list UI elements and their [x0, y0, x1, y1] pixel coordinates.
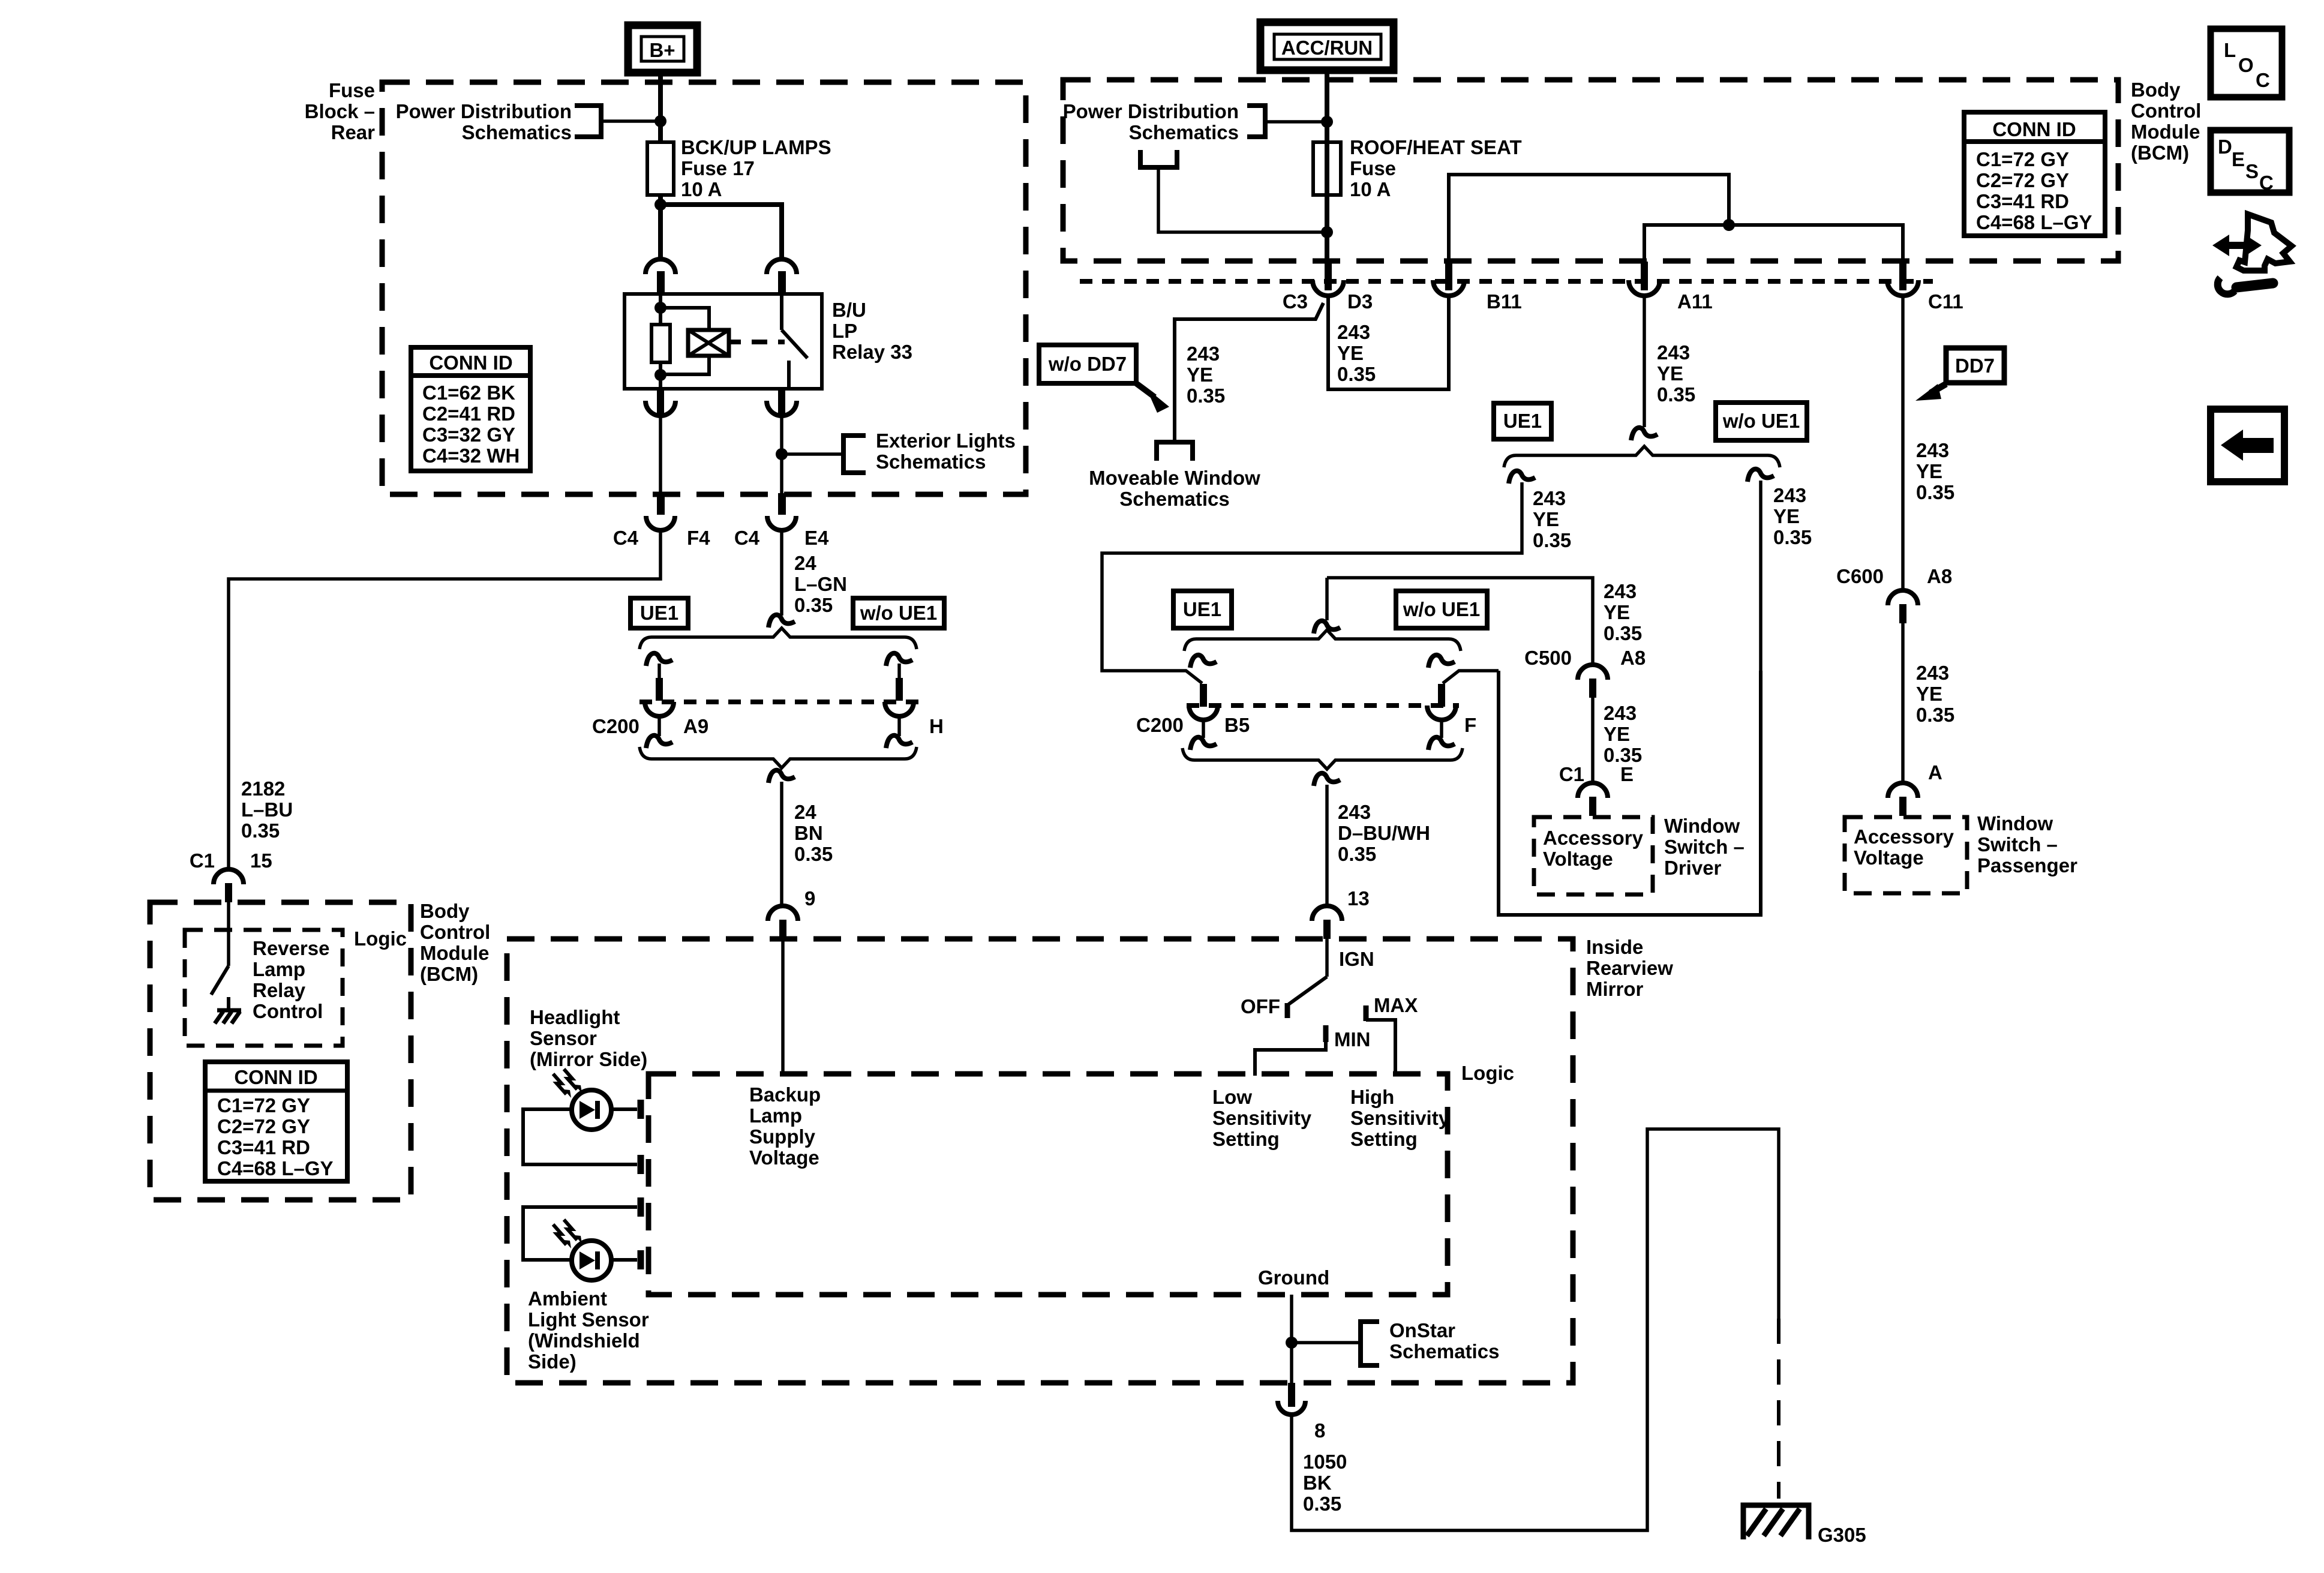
label C4 F4	[613, 527, 710, 549]
svg-text:1050: 1050	[1303, 1451, 1347, 1473]
svg-text:Supply: Supply	[749, 1125, 816, 1148]
svg-text:MIN: MIN	[1334, 1028, 1371, 1050]
relay actuator dashed link	[752, 340, 785, 344]
svg-text:Block –: Block –	[305, 100, 375, 122]
svg-text:Body: Body	[420, 900, 470, 922]
connector C600 A8	[1888, 590, 1918, 623]
svg-text:YE: YE	[1187, 364, 1213, 386]
label OnStar Schematics	[1389, 1319, 1499, 1362]
wire B+ down	[658, 73, 663, 144]
svg-text:Ground: Ground	[1258, 1266, 1329, 1289]
connector row dotted BCM bottom	[1080, 279, 1933, 284]
svg-text:(Mirror Side): (Mirror Side)	[530, 1048, 647, 1070]
wire resume hook IGN	[1314, 621, 1340, 634]
svg-text:Side): Side)	[528, 1350, 577, 1373]
arrow DD7	[1915, 384, 1946, 401]
svg-text:Schematics: Schematics	[1119, 488, 1229, 510]
svg-text:OnStar: OnStar	[1389, 1319, 1455, 1341]
icon DESC box	[2211, 130, 2289, 194]
svg-text:H: H	[929, 715, 944, 737]
label C600 A8	[1836, 565, 1952, 587]
svg-text:243: 243	[1187, 343, 1220, 365]
wire resume hook circuit 24 BN	[768, 770, 795, 783]
svg-text:MAX: MAX	[1374, 994, 1418, 1016]
headlight sensor loop	[523, 1109, 637, 1164]
svg-text:C1=62 BK: C1=62 BK	[422, 382, 515, 404]
wire UE1 branch to C200 B5	[1102, 482, 1522, 683]
relay top connector left	[645, 259, 675, 294]
svg-text:0.35: 0.35	[241, 819, 280, 842]
svg-text:L–BU: L–BU	[241, 798, 293, 821]
inside rearview mirror dashed box	[507, 939, 1573, 1383]
connector D3	[1313, 262, 1344, 296]
svg-text:Exterior Lights: Exterior Lights	[876, 430, 1016, 452]
svg-text:A: A	[1928, 761, 1942, 784]
svg-text:C2=72 GY: C2=72 GY	[217, 1115, 310, 1137]
svg-text:C11: C11	[1928, 290, 1963, 313]
svg-text:Passenger: Passenger	[1977, 854, 2077, 876]
svg-text:Logic: Logic	[1461, 1062, 1514, 1084]
svg-text:Reverse: Reverse	[253, 937, 329, 959]
svg-text:w/o DD7: w/o DD7	[1048, 353, 1127, 375]
bracket power distribution (ACC)	[1247, 106, 1265, 137]
svg-text:L–GN: L–GN	[794, 573, 847, 595]
label Window Switch Passenger	[1977, 812, 2077, 876]
svg-text:0.35: 0.35	[1604, 622, 1642, 644]
svg-text:0.35: 0.35	[1187, 385, 1225, 407]
svg-text:L: L	[2224, 39, 2236, 61]
label ROOF/HEAT SEAT Fuse 10A	[1350, 136, 1522, 200]
label Window Switch Driver	[1664, 815, 1744, 879]
wire resume hook A11	[1631, 428, 1658, 440]
relay suppression loop wire	[660, 308, 709, 374]
svg-text:0.35: 0.35	[1338, 843, 1376, 865]
svg-text:(BCM): (BCM)	[420, 963, 478, 985]
svg-text:D: D	[2218, 136, 2232, 158]
relay coil	[651, 325, 670, 362]
wire resume hook F	[1428, 655, 1455, 668]
svg-text:(Windshield: (Windshield	[528, 1329, 640, 1352]
svg-text:10 A: 10 A	[681, 178, 722, 200]
wire MAX to logic	[1366, 1020, 1395, 1076]
fork power distribution	[1140, 150, 1177, 167]
svg-text:0.35: 0.35	[794, 843, 833, 865]
connector B11	[1433, 262, 1464, 296]
junction dot exterior lights tap	[776, 448, 788, 460]
svg-text:0.35: 0.35	[1337, 363, 1376, 385]
wire resume hook circuit 243 D-BU/WH	[1314, 773, 1340, 786]
wire below H	[897, 716, 901, 736]
brace merge IGN options	[1182, 748, 1463, 769]
svg-text:UE1: UE1	[1503, 410, 1542, 432]
option box UE1 (A11)	[1494, 403, 1551, 439]
svg-text:Logic: Logic	[354, 927, 407, 950]
svg-text:CONN ID: CONN ID	[1992, 118, 2076, 140]
svg-text:Accessory: Accessory	[1854, 825, 1954, 848]
label B/U LP Relay 33	[832, 299, 912, 363]
svg-text:Switch –: Switch –	[1664, 836, 1744, 858]
svg-text:243: 243	[1338, 801, 1371, 823]
label 1050 BK 0.35	[1303, 1451, 1347, 1515]
bracket onstar	[1361, 1322, 1379, 1365]
junction dot coil top	[654, 302, 666, 314]
wire branch to relay switch side	[660, 205, 782, 260]
connector pin 9	[768, 906, 798, 939]
svg-text:A9: A9	[683, 715, 708, 737]
svg-text:CONN ID: CONN ID	[429, 352, 512, 374]
svg-text:(BCM): (BCM)	[2131, 142, 2189, 164]
switch reverse lamp relay control	[211, 966, 229, 995]
photodiode headlight sensor	[572, 1090, 611, 1130]
wire inside fuse	[1325, 144, 1329, 193]
wire drop to C200 A9	[657, 664, 661, 680]
brace split IGN options	[1184, 630, 1461, 651]
power symbol ACC/RUN	[1260, 22, 1394, 70]
connector C4 E4	[767, 493, 796, 530]
icon arrow and wrench	[2212, 214, 2292, 294]
wire below B5	[1202, 719, 1205, 738]
wire ground circuit 1050	[1292, 1129, 1779, 1530]
svg-text:C1: C1	[190, 849, 215, 872]
icon arrow-left box	[2211, 409, 2284, 482]
svg-text:IGN: IGN	[1339, 948, 1374, 970]
svg-text:C200: C200	[592, 715, 639, 737]
svg-text:O: O	[2238, 54, 2254, 76]
ambient sensor loop	[523, 1207, 637, 1260]
wire relay left to fuse block edge	[659, 416, 662, 497]
svg-text:Relay: Relay	[253, 979, 306, 1001]
relay bottom connector right	[767, 389, 797, 416]
wire resume hook w/o UE1 branch	[1747, 469, 1774, 482]
bracket exterior lights	[843, 436, 866, 473]
svg-text:Light Sensor: Light Sensor	[528, 1308, 649, 1331]
wire bracket to ACC wire	[1265, 120, 1327, 124]
terminal MIN	[1323, 1025, 1329, 1042]
label Exterior Lights Schematics	[876, 430, 1016, 473]
relay K33 box	[624, 294, 822, 389]
label C1 15	[190, 849, 272, 872]
wire fuse to relay	[658, 193, 663, 260]
wire to onstar bracket	[1292, 1341, 1361, 1344]
label 243 YE 0.35 (C3)	[1187, 343, 1225, 407]
wire IGN drop to brace	[1325, 578, 1329, 620]
wire drop circuit 24 BN	[780, 782, 783, 905]
wire dashed to G305	[1777, 1319, 1780, 1499]
brace split A11 options	[1504, 446, 1780, 467]
svg-text:Headlight: Headlight	[530, 1006, 620, 1028]
svg-text:C200: C200	[1136, 714, 1184, 736]
svg-text:D3: D3	[1347, 290, 1373, 313]
option box DD7	[1946, 348, 2004, 383]
fuse ROOF/HEAT SEAT	[1313, 142, 1341, 195]
bracket power distribution (B+)	[575, 106, 601, 137]
svg-text:Fuse 17: Fuse 17	[681, 157, 755, 179]
svg-text:Backup: Backup	[749, 1083, 821, 1106]
svg-text:YE: YE	[1337, 342, 1364, 364]
mirror logic dashed box	[648, 1074, 1448, 1295]
svg-text:24: 24	[794, 552, 816, 574]
svg-text:Body: Body	[2131, 79, 2181, 101]
wire C11 drop	[1901, 296, 1905, 589]
option box w/o DD7	[1039, 345, 1136, 383]
relay diode box with X	[688, 330, 729, 356]
svg-text:OFF: OFF	[1241, 995, 1280, 1017]
terminal OFF	[1285, 1003, 1290, 1018]
wire F4 circuit 2182	[229, 530, 660, 869]
svg-text:243: 243	[1533, 487, 1566, 509]
svg-text:S: S	[2245, 160, 2259, 182]
label C500 A8	[1524, 647, 1646, 669]
svg-text:w/o UE1: w/o UE1	[860, 602, 937, 624]
svg-text:BCK/UP LAMPS: BCK/UP LAMPS	[681, 136, 831, 158]
connector row dotted C200	[639, 700, 919, 704]
wire drop to C200 H	[897, 664, 901, 680]
label 243 YE 0.35 (C500)	[1604, 580, 1642, 644]
svg-text:C3=32 GY: C3=32 GY	[422, 424, 515, 446]
label Reverse Lamp Relay Control	[253, 937, 329, 1022]
svg-text:Moveable Window: Moveable Window	[1089, 467, 1260, 489]
svg-text:C2=41 RD: C2=41 RD	[422, 403, 515, 425]
wire end hook H	[886, 736, 912, 748]
svg-text:Window: Window	[1664, 815, 1740, 837]
svg-text:0.35: 0.35	[1916, 481, 1954, 503]
label 243 YE 0.35 (w/o UE1 branch)	[1773, 484, 1812, 548]
svg-text:Setting: Setting	[1350, 1128, 1418, 1150]
relay switch lower stub	[787, 361, 791, 389]
svg-text:24: 24	[794, 801, 816, 823]
option box w/o UE1	[853, 598, 944, 628]
svg-text:Window: Window	[1977, 812, 2053, 834]
svg-text:CONN ID: CONN ID	[234, 1066, 317, 1088]
wire resume hook B5	[1190, 655, 1217, 668]
label 243 YE 0.35 (A11)	[1657, 341, 1695, 406]
switch mirror IGN blade	[1289, 977, 1327, 1004]
svg-text:Voltage: Voltage	[1543, 848, 1613, 870]
label Body Control Module BCM	[2131, 79, 2201, 164]
svg-text:0.35: 0.35	[1303, 1493, 1341, 1515]
option box UE1	[630, 598, 688, 628]
wire A11 to C11 inside BCM	[1644, 225, 1903, 264]
svg-text:Lamp: Lamp	[253, 958, 305, 980]
wire C3 branch	[1175, 303, 1323, 440]
svg-text:C600: C600	[1836, 565, 1884, 587]
wire resume hook H	[886, 653, 912, 666]
svg-text:0.35: 0.35	[1773, 526, 1812, 548]
svg-text:F4: F4	[687, 527, 710, 549]
wire IGN feed horizontal	[1327, 578, 1593, 664]
svg-text:ACC/RUN: ACC/RUN	[1281, 37, 1373, 59]
label Body Control Module BCM left	[420, 900, 490, 985]
conn id table fuse block rear	[411, 347, 530, 471]
light arrows ambient sensor	[553, 1220, 582, 1248]
wire fuse output	[1325, 193, 1329, 264]
label High Sensitivity Setting	[1350, 1086, 1450, 1150]
svg-text:C: C	[2256, 69, 2270, 91]
svg-text:243: 243	[1604, 580, 1637, 602]
svg-text:Low: Low	[1212, 1086, 1252, 1108]
label 243 D-BU/WH 0.35	[1338, 801, 1430, 865]
ground G305	[1743, 1505, 1809, 1539]
logic box reverse lamp	[185, 930, 343, 1046]
junction dot	[654, 199, 666, 211]
svg-text:243: 243	[1337, 321, 1370, 343]
svg-text:YE: YE	[1657, 362, 1683, 385]
svg-text:Module: Module	[420, 942, 489, 964]
svg-text:0.35: 0.35	[1657, 383, 1695, 406]
svg-text:A8: A8	[1927, 565, 1952, 587]
svg-text:Setting: Setting	[1212, 1128, 1280, 1150]
svg-text:2182: 2182	[241, 778, 285, 800]
chassis ground BCM	[215, 1010, 241, 1023]
svg-text:C4=32 WH: C4=32 WH	[422, 445, 520, 467]
wire below F	[1440, 719, 1443, 738]
wire to power distribution fork	[1158, 169, 1327, 232]
label 243 YE 0.35 (UE1 branch)	[1533, 487, 1571, 551]
svg-text:Power Distribution: Power Distribution	[1063, 100, 1239, 122]
svg-text:Driver: Driver	[1664, 857, 1722, 879]
wire relay right down	[780, 416, 783, 497]
connector C200 A9	[645, 678, 674, 716]
svg-text:A11: A11	[1677, 290, 1713, 313]
label C200 B5 F	[1136, 714, 1476, 736]
svg-text:C: C	[2259, 172, 2274, 194]
junction dot fuse output	[1321, 226, 1333, 238]
connector A11	[1629, 262, 1660, 296]
icon LOC box	[2211, 29, 2282, 97]
relay switch common wire	[780, 294, 783, 330]
svg-text:Inside: Inside	[1586, 936, 1643, 958]
wire B11 feed loop	[1449, 175, 1729, 264]
svg-text:C1: C1	[1559, 763, 1584, 785]
svg-text:10 A: 10 A	[1350, 178, 1391, 200]
svg-text:C1=72 GY: C1=72 GY	[1976, 148, 2069, 170]
svg-text:Sensor: Sensor	[530, 1027, 597, 1049]
wire break hook E4	[768, 615, 795, 628]
label Ambient Light Sensor Windshield Side	[528, 1287, 649, 1373]
connector pin 13	[1312, 906, 1342, 939]
relay actuator stub	[729, 340, 741, 344]
connector C500 A8	[1578, 665, 1608, 698]
svg-text:Fuse: Fuse	[329, 79, 375, 101]
relay top connector right	[767, 259, 797, 294]
svg-text:Relay 33: Relay 33	[832, 341, 912, 363]
wire resume hook A9	[646, 653, 672, 666]
wire drop circuit 243 D-BU/WH	[1325, 785, 1329, 905]
light arrows headlight sensor	[553, 1069, 582, 1098]
svg-text:BN: BN	[794, 822, 823, 844]
svg-text:UE1: UE1	[1183, 598, 1221, 620]
svg-text:YE: YE	[1604, 723, 1630, 745]
accessory voltage box passenger	[1845, 817, 1967, 893]
wire MIN to logic	[1255, 1041, 1326, 1076]
wire to exterior lights bracket	[782, 452, 843, 456]
connector C200 F	[1427, 684, 1456, 720]
fuse block rear dashed box	[382, 82, 1026, 494]
wire w/o UE1 branch to window switch driver	[1759, 481, 1762, 672]
svg-text:Fuse: Fuse	[1350, 157, 1396, 179]
svg-text:DD7: DD7	[1955, 355, 1995, 377]
window switch driver box	[1499, 671, 1761, 915]
svg-text:UE1: UE1	[640, 602, 678, 624]
svg-text:Schematics: Schematics	[1129, 121, 1239, 143]
label Power Distribution Schematics (B+)	[396, 100, 572, 143]
svg-text:0.35: 0.35	[794, 594, 833, 616]
svg-text:E: E	[2232, 148, 2245, 170]
terminal MAX	[1364, 1005, 1369, 1021]
svg-text:D–BU/WH: D–BU/WH	[1338, 822, 1430, 844]
svg-text:YE: YE	[1533, 508, 1559, 530]
label Backup Lamp Supply Voltage	[749, 1083, 821, 1169]
svg-text:Switch –: Switch –	[1977, 833, 2058, 855]
svg-text:YE: YE	[1916, 683, 1942, 705]
svg-text:Control: Control	[420, 921, 490, 943]
svg-text:B+: B+	[649, 39, 675, 61]
svg-text:Power Distribution: Power Distribution	[396, 100, 572, 122]
svg-text:F: F	[1464, 714, 1476, 736]
svg-text:8: 8	[1314, 1419, 1325, 1442]
wire ground from logic	[1290, 1295, 1293, 1383]
svg-text:C2=72 GY: C2=72 GY	[1976, 169, 2069, 191]
svg-text:ROOF/HEAT SEAT: ROOF/HEAT SEAT	[1350, 136, 1522, 158]
label 243 YE 0.35 (C1 E)	[1604, 702, 1642, 766]
headlight sensor terminals	[638, 1100, 644, 1174]
svg-text:LP: LP	[832, 320, 857, 342]
junction dot coil bottom	[654, 369, 666, 381]
label Inside Rearview Mirror	[1586, 936, 1673, 1000]
junction dot	[654, 115, 666, 127]
wire resume hook UE1 branch	[1509, 471, 1535, 484]
svg-text:Rear: Rear	[331, 121, 376, 143]
svg-text:Accessory: Accessory	[1543, 827, 1644, 849]
svg-text:243: 243	[1773, 484, 1806, 506]
label Moveable Window Schematics	[1089, 467, 1260, 510]
wire below A9	[657, 716, 661, 736]
svg-text:243: 243	[1657, 341, 1690, 364]
conn id table BCM	[1964, 112, 2105, 236]
svg-text:G305: G305	[1818, 1524, 1866, 1546]
connector C1 pin 15	[214, 869, 244, 902]
conn id table BCM left	[205, 1062, 347, 1181]
wire E4 circuit 24	[780, 530, 783, 616]
svg-text:C3: C3	[1283, 290, 1308, 313]
svg-text:Ambient: Ambient	[528, 1287, 607, 1310]
ambient sensor terminals	[638, 1197, 644, 1269]
svg-text:Rearview: Rearview	[1586, 957, 1673, 979]
svg-text:Control: Control	[2131, 100, 2201, 122]
label C4 E4	[734, 527, 829, 549]
relay switch blade	[782, 330, 807, 358]
svg-text:C4: C4	[613, 527, 639, 549]
relay bottom connector left	[645, 389, 675, 416]
svg-text:13: 13	[1347, 887, 1370, 909]
wire D3 to B11 loop	[1328, 296, 1449, 389]
junction dot ground	[1286, 1337, 1298, 1349]
wire C500 to C1 E	[1591, 698, 1595, 782]
label C1 E	[1559, 763, 1634, 785]
wire end hook F	[1428, 737, 1455, 750]
svg-text:C4: C4	[734, 527, 760, 549]
connector C200 B5	[1189, 684, 1218, 720]
wire end hook B5	[1190, 737, 1217, 750]
svg-text:C1=72 GY: C1=72 GY	[217, 1094, 310, 1116]
label 243 YE 0.35 (C600)	[1916, 662, 1954, 726]
svg-text:w/o UE1: w/o UE1	[1403, 598, 1480, 620]
label C3 D3	[1283, 290, 1373, 313]
svg-text:B11: B11	[1487, 290, 1522, 313]
svg-text:Voltage: Voltage	[1854, 846, 1924, 869]
label 243 YE 0.35 (C11)	[1916, 439, 1954, 503]
connector pin A	[1888, 783, 1918, 816]
